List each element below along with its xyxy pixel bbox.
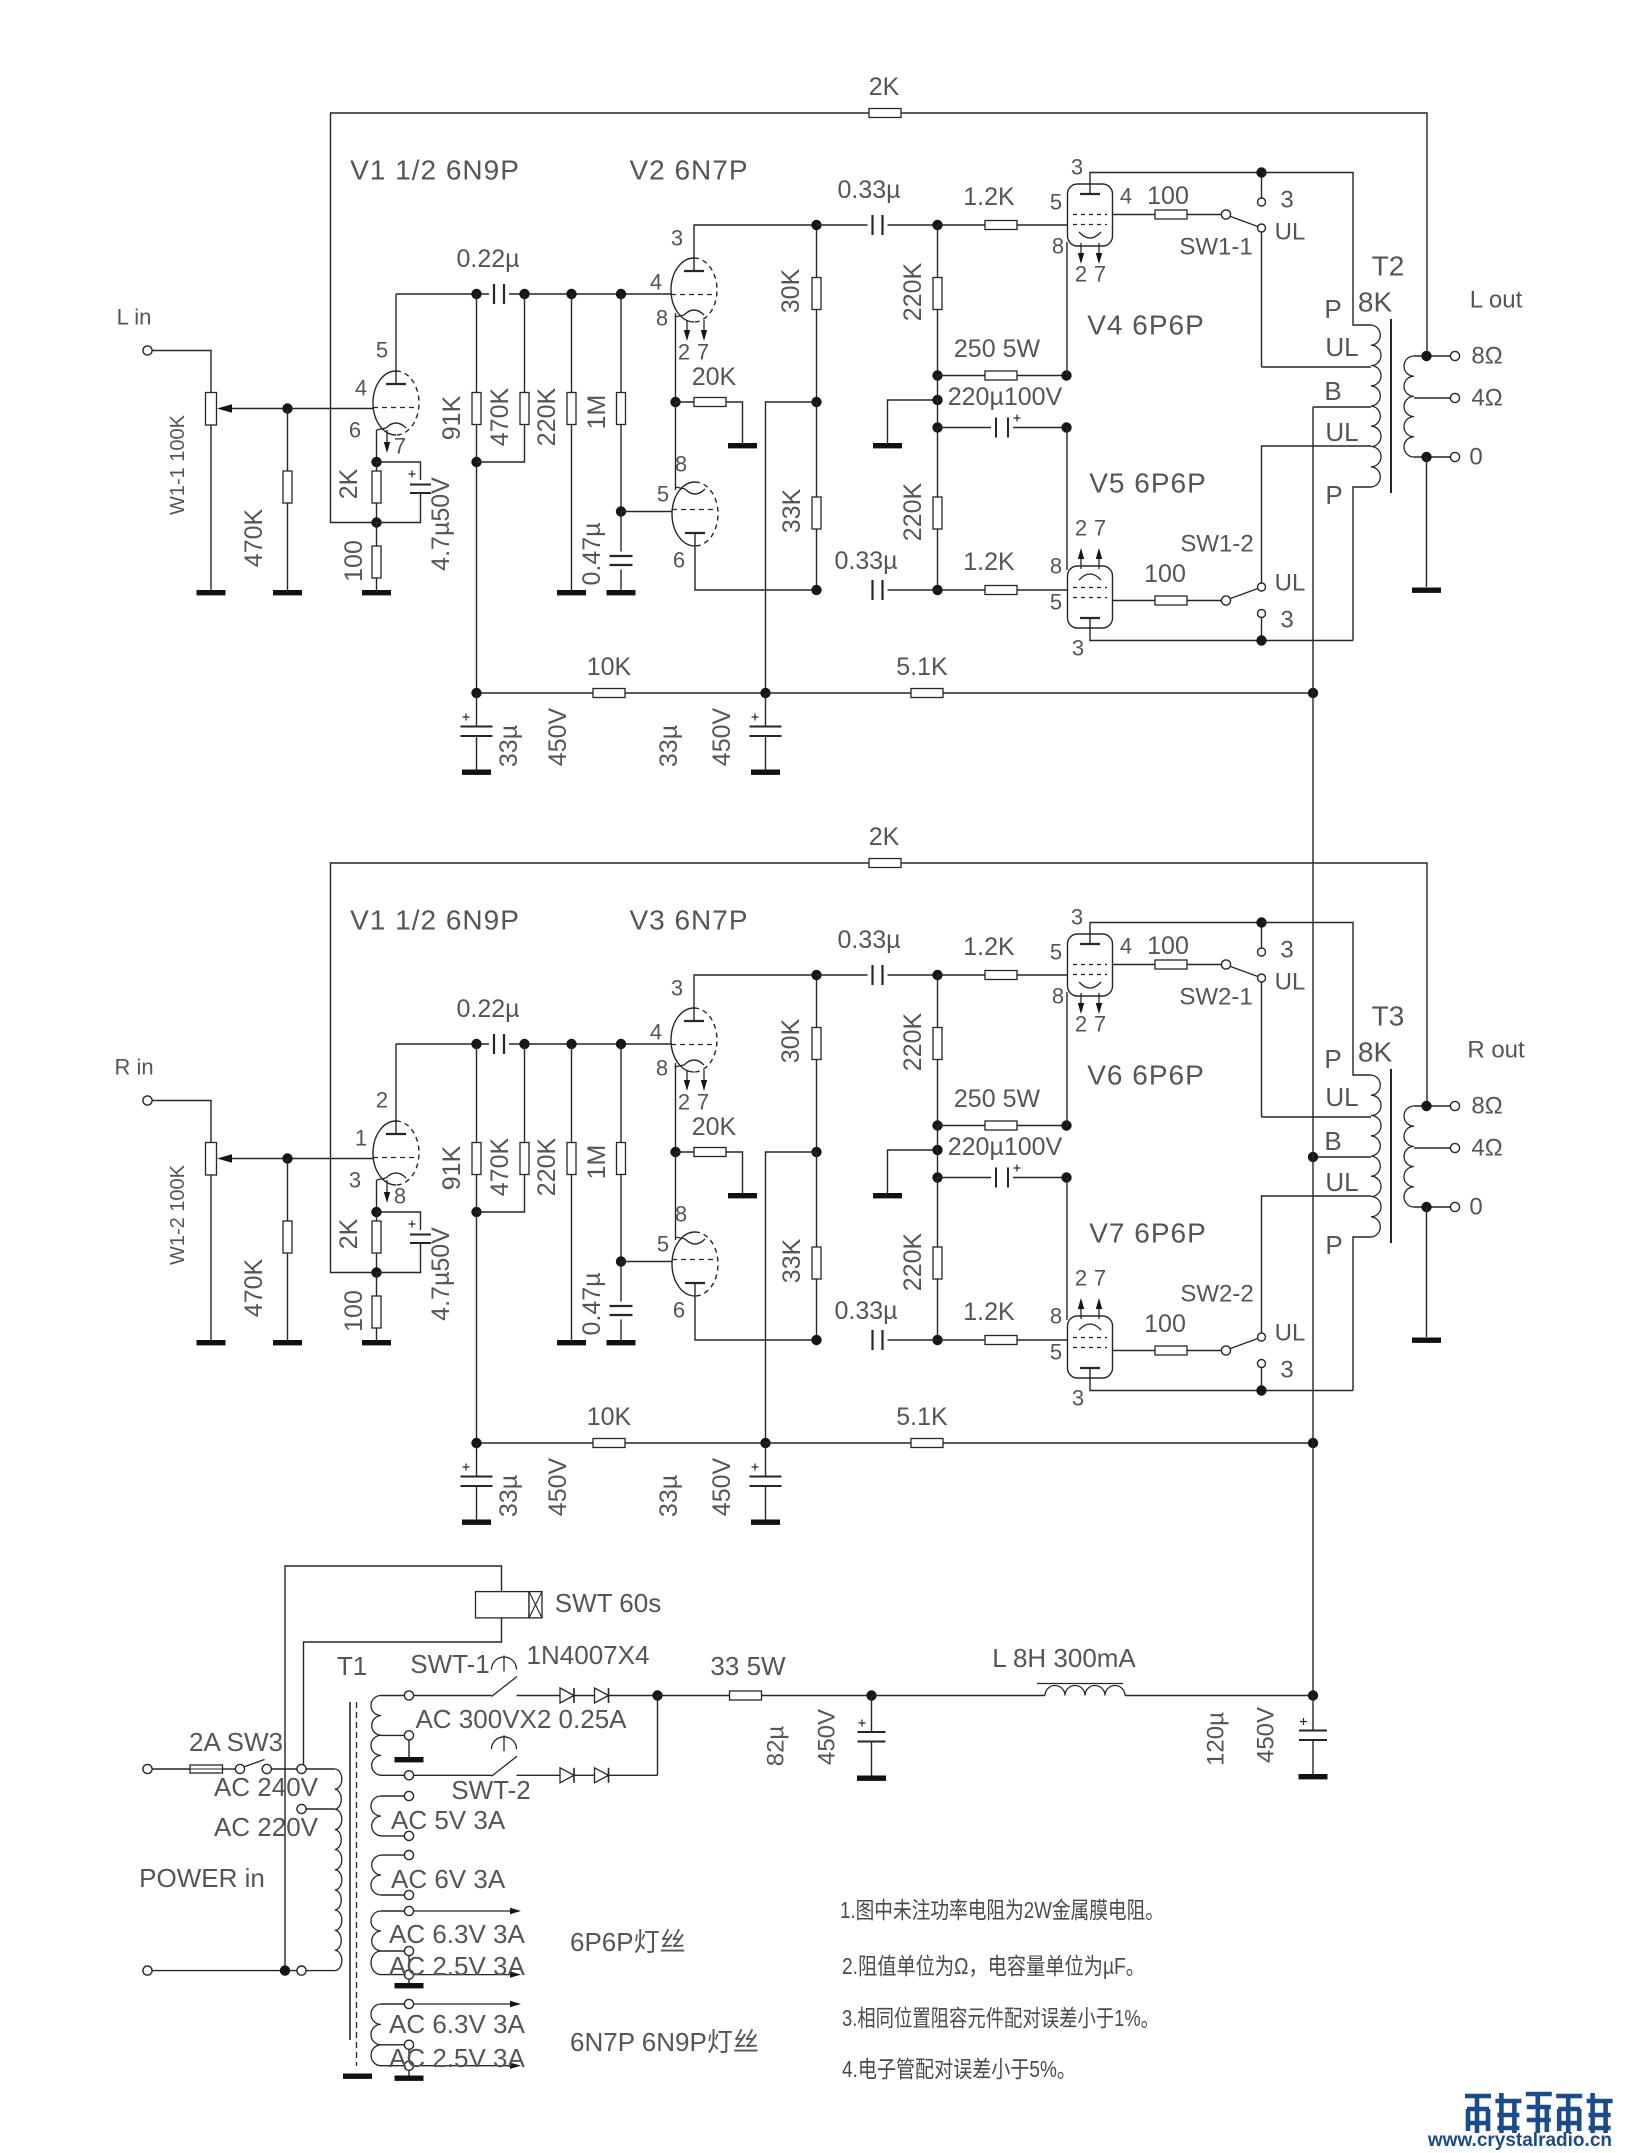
node 91K-470K junction L — [471, 457, 481, 467]
svg-text:2: 2 — [1075, 1266, 1087, 1291]
svg-text:450V: 450V — [708, 707, 736, 766]
ground 33u left R — [462, 1520, 491, 1525]
node 82u dot — [866, 1690, 876, 1700]
transformer T1 primary — [306, 1768, 335, 1770]
svg-text:5: 5 — [376, 338, 388, 363]
svg-text:POWER in: POWER in — [139, 1863, 265, 1893]
ground y400 R — [873, 1193, 902, 1198]
svg-text:220K: 220K — [899, 482, 927, 541]
heater arrows V4 6P6P — [1080, 243, 1082, 253]
resistor 1M L — [620, 294, 622, 393]
wire V2 6N7P upper plate L — [694, 225, 817, 271]
svg-text:220µ100V: 220µ100V — [948, 383, 1063, 411]
wire SW2-1 contact3 R — [1261, 923, 1263, 949]
ground 2.5V B — [395, 2076, 424, 2081]
switch SW1-1 — [1221, 210, 1230, 219]
svg-text:20K: 20K — [692, 363, 737, 391]
wire SW1-1 UL to tap L — [1261, 232, 1263, 367]
svg-text:33K: 33K — [778, 1238, 806, 1283]
svg-text:3: 3 — [671, 226, 683, 251]
transformer T3 core — [1390, 1069, 1392, 1243]
svg-text:0.33µ: 0.33µ — [834, 547, 897, 575]
wire y402 jog R — [766, 1152, 817, 1443]
resistor 10K L — [593, 689, 625, 698]
wire V6 6P6P plate R — [1090, 923, 1262, 945]
svg-text:W1-1 100K: W1-1 100K — [167, 414, 189, 515]
svg-text:0.33µ: 0.33µ — [834, 1297, 897, 1325]
svg-text:33 5W: 33 5W — [710, 1651, 786, 1681]
fuse 2A — [152, 1768, 190, 1770]
node B rail 5.1K dot R — [1308, 1438, 1318, 1448]
pentode V6 6P6P — [1068, 934, 1113, 996]
svg-text:4: 4 — [650, 270, 662, 295]
capacitor 0.22u coupling L — [396, 293, 489, 295]
resistor 20K L — [676, 401, 695, 403]
resistor 5.1K R — [766, 1442, 912, 1444]
ground output L — [1412, 588, 1441, 593]
diode D3 1N4007 — [560, 1768, 574, 1783]
node relay branch dot — [280, 1965, 290, 1975]
svg-text:P: P — [1324, 1044, 1341, 1074]
resistor 250 5W L — [938, 375, 986, 377]
svg-text:2.阻值单位为Ω，电容量单位为µF。: 2.阻值单位为Ω，电容量单位为µF。 — [842, 1953, 1145, 1979]
capacitor 4.7u50V bypass L — [377, 462, 421, 480]
switch SW2-2 — [1221, 1346, 1230, 1355]
svg-text:5: 5 — [1050, 1340, 1062, 1365]
power supply section — [139, 1566, 1327, 2081]
wire ground stub y400 R — [888, 1150, 938, 1193]
ground 33u left L — [462, 770, 491, 775]
node POWER in upper terminal — [143, 1764, 152, 1773]
diode D4 1N4007 — [595, 1768, 609, 1783]
wire plate line to primary top L — [1262, 173, 1372, 326]
potentiometer W1-1 100K — [206, 393, 217, 426]
svg-text:7: 7 — [697, 1090, 709, 1115]
resistor 1.2K lower R — [938, 1339, 986, 1341]
node 0 tap dot L — [1421, 452, 1431, 462]
svg-text:2: 2 — [678, 1090, 690, 1115]
resistor 2K cathode R — [376, 1212, 378, 1221]
svg-text:T3: T3 — [1372, 1001, 1405, 1032]
svg-text:0.47µ: 0.47µ — [578, 1272, 606, 1335]
svg-text:AC 300VX2 0.25A: AC 300VX2 0.25A — [415, 1704, 627, 1734]
node cathode 250 dot R — [1061, 1120, 1071, 1130]
svg-text:SW2-2: SW2-2 — [1180, 1281, 1253, 1308]
svg-text:7: 7 — [697, 340, 709, 365]
node 33K bottom dot R — [811, 1335, 821, 1345]
node 30K bottom dot R — [811, 1147, 821, 1157]
svg-text:4.7µ50V: 4.7µ50V — [427, 477, 455, 571]
svg-text:V4 6P6P: V4 6P6P — [1087, 310, 1205, 341]
svg-text:AC 6V 3A: AC 6V 3A — [391, 1864, 506, 1894]
wire V1 cathode R — [376, 1180, 378, 1212]
svg-text:7: 7 — [1094, 1266, 1106, 1291]
svg-text:91K: 91K — [438, 395, 466, 440]
svg-text:0.33µ: 0.33µ — [837, 926, 900, 954]
diode D2 1N4007 — [595, 1688, 609, 1703]
svg-text:8: 8 — [656, 306, 668, 331]
node dots on 0.22u line R — [471, 1039, 481, 1049]
resistor 1.2K upper L — [938, 224, 986, 226]
svg-text:120µ: 120µ — [1203, 1712, 1230, 1766]
resistor 250 5W R — [938, 1125, 986, 1127]
transformer T1 HV secondary — [371, 1696, 381, 1736]
resistor 1M R — [620, 1044, 622, 1143]
pentode V4 6P6P — [1068, 184, 1113, 246]
node 10K left dot R — [471, 1438, 481, 1448]
node 0.33u-220K dot upper R — [932, 970, 942, 980]
svg-text:5: 5 — [1050, 590, 1062, 615]
switch SWT-2 — [492, 1756, 518, 1776]
svg-text:UL: UL — [1275, 219, 1306, 246]
wire SW1-1 contact3 L — [1261, 173, 1263, 199]
svg-text:5.1K: 5.1K — [896, 1403, 948, 1431]
wire 8ohm tap L — [1414, 355, 1450, 357]
heater arrows V2 6N7P upper — [686, 320, 688, 330]
svg-text:T1: T1 — [337, 1651, 367, 1681]
resistor 100 screen lower L — [1113, 600, 1156, 602]
wire HV center tap ground — [408, 1740, 410, 1757]
resistor 470K divider R — [524, 1044, 526, 1143]
svg-text:2K: 2K — [335, 468, 363, 499]
triode V2 6N7P upper — [671, 258, 694, 322]
wire V1 plate L — [395, 294, 397, 384]
diode D1 1N4007 — [560, 1688, 574, 1703]
transformer T1 6V winding — [371, 1855, 381, 1895]
svg-text:SWT 60s: SWT 60s — [555, 1588, 661, 1618]
wire 10K rail R — [477, 1442, 594, 1444]
svg-text:B: B — [1324, 376, 1341, 406]
triode V1 half L — [373, 371, 396, 435]
node V1 cathode dot L — [371, 457, 381, 467]
svg-text:100: 100 — [1144, 560, 1186, 588]
capacitor 4.7u50V bypass R — [377, 1212, 421, 1230]
node 10K right dot R — [760, 1438, 770, 1448]
transformer T3 primary — [1371, 1075, 1381, 1237]
ground 220K R — [557, 1340, 586, 1345]
svg-text:8: 8 — [1050, 1304, 1062, 1329]
svg-text:R in: R in — [114, 1055, 153, 1080]
heater arrows V5 6P6P — [1080, 559, 1082, 569]
svg-text:4: 4 — [650, 1020, 662, 1045]
ground 100 R — [362, 1340, 391, 1345]
wire lower rectifier junction — [657, 1696, 659, 1776]
svg-text:8: 8 — [1052, 984, 1064, 1009]
svg-text:6N7P 6N9P灯丝: 6N7P 6N9P灯丝 — [570, 2027, 759, 2057]
pentode V7 6P6P — [1068, 1316, 1113, 1378]
heater arrows V7 6P6P — [1080, 1309, 1082, 1319]
node POWER in lower terminal — [143, 1966, 152, 1975]
wire V2 6N7P lower cathode L — [675, 402, 677, 490]
node 30K bottom dot L — [811, 397, 821, 407]
ground 220K L — [557, 590, 586, 595]
svg-text:4.电子管配对误差小于5%。: 4.电子管配对误差小于5%。 — [842, 2056, 1076, 2082]
svg-text:1.图中未注功率电阻为2W金属膜电阻。: 1.图中未注功率电阻为2W金属膜电阻。 — [840, 1897, 1164, 1923]
svg-text:470K: 470K — [486, 387, 514, 446]
svg-text:450V: 450V — [544, 1457, 572, 1516]
capacitor 33u right L — [765, 693, 767, 727]
resistor 100 screen upper L — [1113, 214, 1156, 216]
svg-text:3: 3 — [671, 976, 683, 1001]
node cathode 20K dot R — [670, 1147, 680, 1157]
relay SWT 60s coil box — [476, 1592, 530, 1618]
svg-text:V2 6N7P: V2 6N7P — [629, 155, 748, 186]
svg-text:4Ω: 4Ω — [1471, 1135, 1502, 1162]
node 2K bottom dot L — [371, 517, 381, 527]
resistor 10K R — [593, 1439, 625, 1448]
resistor 100 R — [372, 1296, 381, 1328]
svg-text:1.2K: 1.2K — [963, 183, 1015, 211]
svg-text:3: 3 — [1280, 187, 1293, 214]
svg-text:7: 7 — [1094, 516, 1106, 541]
svg-text:4: 4 — [355, 376, 367, 401]
capacitor 0.33u lower R — [871, 1330, 873, 1350]
svg-text:100: 100 — [1147, 182, 1189, 210]
wire feedback to 8ohm tap L — [901, 113, 1427, 356]
wire to choke — [872, 1695, 1046, 1697]
svg-text:5: 5 — [657, 482, 669, 507]
wire V1 cathode L — [376, 430, 378, 462]
wire relay loop — [285, 1566, 502, 1971]
wire B+ rail — [1312, 407, 1314, 1696]
node R in terminal — [143, 1096, 152, 1105]
svg-text:2: 2 — [1075, 262, 1087, 287]
inductor L 8H 300mA — [1045, 1686, 1125, 1696]
svg-text:8: 8 — [675, 1202, 687, 1227]
svg-text:82µ: 82µ — [763, 1726, 790, 1767]
ground T1 shield — [343, 2074, 372, 2079]
svg-text:470K: 470K — [240, 508, 268, 567]
svg-text:8: 8 — [1050, 554, 1062, 579]
transformer T3 secondary — [1404, 1106, 1414, 1207]
wire V3 6N7P lower plate R — [695, 1283, 817, 1340]
ground 20K R — [728, 1193, 757, 1198]
svg-text:8: 8 — [1052, 234, 1064, 259]
wire 2.5VA ground stub — [408, 1979, 410, 1983]
node V1 cathode dot R — [371, 1207, 381, 1217]
wire V4 6P6P plate L — [1090, 173, 1262, 195]
transformer T2 primary — [1371, 325, 1381, 487]
wire to lower grid R — [621, 1261, 672, 1263]
node rectifier output dot — [652, 1690, 662, 1700]
resistor 33K R — [816, 1152, 818, 1247]
node B rail 5.1K dot L — [1308, 688, 1318, 698]
svg-text:V1 1/2 6N9P: V1 1/2 6N9P — [350, 155, 520, 186]
wiper arrow R — [217, 1154, 232, 1162]
wire plate line to primary top R — [1262, 923, 1372, 1076]
wire pot to ground L — [210, 425, 212, 590]
node L in terminal — [143, 346, 152, 355]
svg-text:2: 2 — [1075, 1012, 1087, 1037]
wire T3 B tap R — [1313, 1156, 1371, 1158]
svg-text:20K: 20K — [692, 1113, 737, 1141]
svg-text:220K: 220K — [533, 1137, 561, 1196]
node HV top terminal — [404, 1691, 413, 1700]
svg-text:SW1-2: SW1-2 — [1180, 531, 1253, 558]
svg-text:UL: UL — [1325, 1082, 1358, 1112]
svg-text:R out: R out — [1467, 1037, 1525, 1064]
ground 470K L — [273, 590, 302, 595]
node 33K bottom dot L — [811, 585, 821, 595]
capacitor 0.22u coupling R — [396, 1043, 489, 1045]
svg-text:W1-2 100K: W1-2 100K — [167, 1164, 189, 1265]
wire SW1-2 contact3 L — [1261, 618, 1263, 641]
triode V2 6N7P lower — [672, 482, 695, 546]
resistor 5.1K L — [766, 692, 912, 694]
node T1 primary bottom — [297, 1966, 306, 1975]
wire 8ohm tap R — [1414, 1105, 1450, 1107]
svg-text:8: 8 — [394, 1184, 406, 1209]
svg-text:33K: 33K — [778, 488, 806, 533]
svg-text:2: 2 — [678, 340, 690, 365]
wire T3 P bottom R — [1353, 1237, 1371, 1391]
svg-text:220K: 220K — [899, 1012, 927, 1071]
wire to lower grid L — [621, 511, 672, 513]
svg-text:2A SW3: 2A SW3 — [189, 1727, 283, 1757]
svg-text:470K: 470K — [240, 1258, 268, 1317]
wire T3 UL tap lower R — [1262, 1196, 1372, 1333]
svg-text:0.22µ: 0.22µ — [456, 245, 519, 273]
svg-text:1M: 1M — [583, 1145, 611, 1180]
svg-text:V5 6P6P: V5 6P6P — [1089, 468, 1207, 499]
wire 0 tap to ground R — [1426, 1207, 1428, 1337]
transformer T1 5V winding — [371, 1796, 381, 1836]
wire pot to ground R — [210, 1175, 212, 1340]
resistor 1.2K lower L — [938, 589, 986, 591]
wire 2.5VB ground stub — [408, 2070, 410, 2075]
svg-text:AC 6.3V 3A: AC 6.3V 3A — [389, 2009, 526, 2039]
svg-text:33µ: 33µ — [495, 725, 523, 767]
capacitor 220u100V R — [937, 1126, 939, 1178]
ground 0.47u L — [607, 590, 636, 595]
svg-text:3: 3 — [1280, 937, 1293, 964]
ground 33u right R — [751, 1520, 780, 1525]
wire 0 tap L — [1414, 456, 1450, 458]
capacitor 0.47u R — [620, 1262, 622, 1302]
wire 0 tap R — [1414, 1206, 1450, 1208]
node 0.33u-220K dot lower L — [932, 585, 942, 595]
svg-text:1M: 1M — [583, 395, 611, 430]
node plate line lower dot L — [1256, 635, 1266, 645]
wire SW2-2 contact3 R — [1261, 1368, 1263, 1391]
svg-text:AC 220V: AC 220V — [214, 1812, 319, 1842]
svg-text:UL: UL — [1275, 1320, 1306, 1347]
svg-text:6P6P灯丝: 6P6P灯丝 — [570, 1927, 686, 1957]
notes text — [840, 1897, 1164, 2082]
wire T2 UL tap upper L — [1262, 366, 1372, 368]
svg-text:91K: 91K — [438, 1145, 466, 1190]
svg-text:UL: UL — [1325, 1167, 1358, 1197]
resistor 2K cathode L — [376, 462, 378, 471]
svg-text:10K: 10K — [587, 653, 632, 681]
triode V3 6N7P upper — [671, 1008, 694, 1072]
svg-text:SW1-1: SW1-1 — [1179, 234, 1252, 261]
node cathode 220u dot L — [1061, 422, 1071, 432]
switch SW3 — [223, 1768, 236, 1770]
resistor 220K grid lower L — [937, 428, 939, 498]
svg-text:220K: 220K — [899, 1232, 927, 1291]
resistor 470K grid leak L — [287, 409, 289, 472]
svg-text:3: 3 — [1071, 155, 1083, 180]
svg-text:0: 0 — [1469, 444, 1482, 471]
resistor 470K divider L — [524, 294, 526, 393]
ground pot L — [197, 590, 226, 595]
resistor 220K grid upper R — [937, 975, 939, 1028]
wire 4ohm tap L — [1414, 397, 1450, 399]
svg-text:3: 3 — [1072, 1386, 1084, 1411]
wire feedback loop R — [331, 863, 870, 1273]
ground 82u — [857, 1776, 886, 1781]
capacitor 220u100V L — [937, 376, 939, 428]
triode V3 6N7P lower — [672, 1232, 695, 1296]
svg-text:220K: 220K — [899, 262, 927, 321]
wiper arrow L — [217, 404, 232, 412]
wire V2 6N7P lower plate L — [695, 533, 817, 590]
node cathode 220u dot R — [1061, 1172, 1071, 1182]
node plate line dot L — [1256, 167, 1266, 177]
wire T3 UL tap upper R — [1262, 1116, 1372, 1118]
svg-text:30K: 30K — [777, 1018, 805, 1063]
potentiometer W1-2 100K — [206, 1143, 217, 1176]
switch SWT-1 — [492, 1677, 518, 1697]
svg-text:4Ω: 4Ω — [1471, 385, 1502, 412]
svg-text:V3 6N7P: V3 6N7P — [629, 905, 748, 936]
svg-text:AC 240V: AC 240V — [214, 1772, 319, 1802]
ground 0.47u R — [607, 1340, 636, 1345]
node grid junction R — [282, 1153, 292, 1163]
svg-text:10K: 10K — [587, 1403, 632, 1431]
wire feedback loop L — [331, 113, 870, 523]
pentode V5 6P6P — [1068, 566, 1113, 628]
node 250-5W left dot L — [932, 370, 942, 380]
wire V7 6P6P cathode R — [1066, 1178, 1068, 1321]
transformer T2 secondary — [1404, 356, 1414, 457]
wire choke to B+ — [1125, 1695, 1313, 1697]
heater arrows V3 6N7P upper — [686, 1070, 688, 1080]
svg-text:6: 6 — [673, 1298, 685, 1323]
ground 470K R — [273, 1340, 302, 1345]
svg-text:100: 100 — [1144, 1310, 1186, 1338]
wire input L — [152, 351, 211, 393]
svg-text:1.2K: 1.2K — [963, 548, 1015, 576]
svg-text:4: 4 — [1120, 184, 1132, 209]
wire T2 UL tap lower L — [1262, 446, 1372, 583]
heater arrow V1 L — [386, 430, 388, 442]
resistor 30K R — [816, 975, 818, 1028]
wire V3 6N7P upper plate R — [694, 975, 817, 1021]
svg-text:5: 5 — [657, 1232, 669, 1257]
resistor 33K L — [816, 402, 818, 497]
transformer T1 6.3V winding A — [371, 1911, 381, 1951]
svg-text:33µ: 33µ — [655, 725, 683, 767]
svg-text:UL: UL — [1325, 417, 1358, 447]
switch SW2-1 — [1221, 960, 1230, 969]
node cathode 250 dot L — [1061, 370, 1071, 380]
svg-text:8Ω: 8Ω — [1471, 343, 1502, 370]
channel L — [117, 73, 1523, 775]
ground y400 L — [873, 443, 902, 448]
wire V3 6N7P lower cathode R — [675, 1152, 677, 1240]
ground 120u — [1299, 1774, 1328, 1779]
svg-text:450V: 450V — [814, 1709, 841, 1765]
resistor 100 screen lower R — [1113, 1350, 1156, 1352]
svg-text:3: 3 — [1280, 607, 1293, 634]
ground output R — [1412, 1338, 1441, 1343]
capacitor 33u right R — [765, 1443, 767, 1477]
svg-text:220K: 220K — [533, 387, 561, 446]
svg-text:5: 5 — [1050, 190, 1062, 215]
capacitor 0.33u upper R — [817, 974, 868, 976]
